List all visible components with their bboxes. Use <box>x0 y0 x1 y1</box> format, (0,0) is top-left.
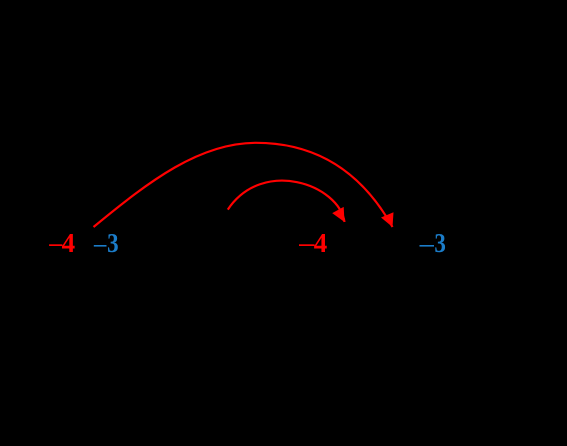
svg-text:4: 4 <box>314 228 328 258</box>
red term -4 (first occurrence) <box>49 228 75 258</box>
small arrowhead <box>332 207 344 222</box>
svg-text:3: 3 <box>107 229 118 258</box>
big arrowhead <box>381 212 394 227</box>
svg-text:4: 4 <box>62 228 76 258</box>
blue term -3 (second occurrence) <box>420 229 446 258</box>
big red arrow arc from first -3 to second -3 <box>94 143 393 227</box>
blue term -3 (first occurrence) <box>94 229 119 258</box>
svg-text:3: 3 <box>434 229 445 258</box>
small red arrow arc to second -4 <box>228 181 345 222</box>
red term -4 (second occurrence) <box>299 228 327 258</box>
